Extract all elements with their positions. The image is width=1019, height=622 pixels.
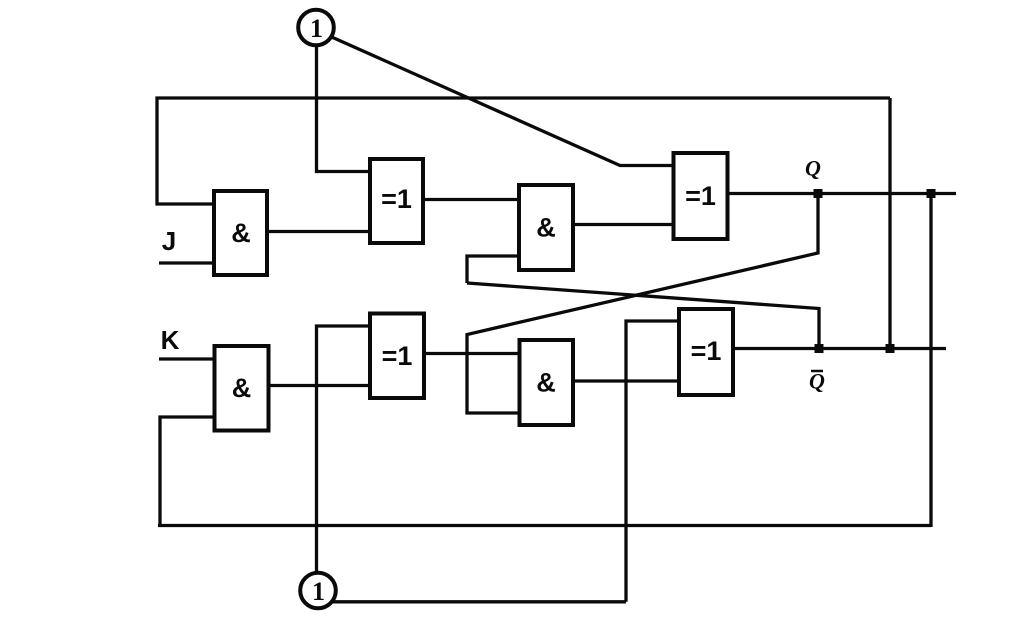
junction on Qbar line at x=890 xyxy=(886,344,895,353)
wire: Qbar output line xyxy=(733,347,946,350)
wire: XOR U8 top input hook from bottom constant-1 rail xyxy=(626,321,679,602)
svg-text:=1: =1 xyxy=(382,341,413,371)
svg-text:=1: =1 xyxy=(381,184,412,214)
svg-text:&: & xyxy=(536,213,556,243)
wire: right vertical from top rail down to Qbar line xyxy=(888,98,891,349)
XOR gate U4 (drives Q) xyxy=(674,153,728,239)
wire: K input lead xyxy=(159,357,216,360)
node: constant-1 source (bottom), circle xyxy=(300,573,336,609)
svg-text:=1: =1 xyxy=(685,181,716,211)
wire: U1 output to XOR U2 lower input xyxy=(267,230,371,233)
XOR gate U2 xyxy=(370,159,423,243)
svg-text:Q: Q xyxy=(805,156,821,181)
svg-text:1: 1 xyxy=(312,577,325,606)
wire: U2 output to AND U3 top input xyxy=(423,198,520,201)
XOR gate U6 xyxy=(370,314,424,399)
svg-text:1: 1 xyxy=(310,14,323,43)
junction on Q line at x=931 xyxy=(927,189,936,198)
AND gate U7 xyxy=(520,340,574,425)
wire: far right vertical from Q line down to bottom rail xyxy=(929,194,932,528)
wire: U5 lower-input hook down to bottom rail xyxy=(160,417,216,526)
wire: top constant-1 stem down to XOR U2 top input xyxy=(317,45,372,172)
wire: J input lead xyxy=(159,261,216,264)
svg-text:J: J xyxy=(162,226,176,256)
XOR gate U8 (drives Qbar) xyxy=(679,309,733,395)
wire: top feedback rail xyxy=(157,98,890,204)
svg-text:K: K xyxy=(161,325,180,355)
wire: U7 output to XOR U8 lower input xyxy=(573,379,679,382)
wire: bottom constant-1 output to XOR U8 hook xyxy=(333,600,626,603)
wire: U3 output to XOR U4 lower input xyxy=(573,223,674,226)
AND gate U1 (J) xyxy=(214,191,267,275)
svg-text:&: & xyxy=(232,373,252,403)
wire: diagonal from top constant-1 to XOR U4 top input xyxy=(331,37,675,166)
wire: XOR U6 top input from bottom constant-1 stem xyxy=(317,326,372,572)
svg-text:&: & xyxy=(536,368,556,398)
label Qbar xyxy=(809,369,825,394)
svg-text:&: & xyxy=(231,218,251,248)
AND gate U5 (K) xyxy=(215,346,269,431)
wire: bottom rail xyxy=(158,524,931,527)
junction on Q line at x=818 xyxy=(814,189,823,198)
AND gate U3 xyxy=(519,185,573,270)
junction on Qbar line at x=819 xyxy=(815,344,824,353)
node: constant-1 source (top), circle xyxy=(298,10,334,46)
wire: hook into AND U3 lower input (from cross diagonal B) xyxy=(467,256,520,283)
wire: Q feedback vertical then diagonal A to AND U7 lower input xyxy=(467,194,818,414)
wire: U6 output to AND U7 top input xyxy=(424,352,520,355)
wire: Q output line xyxy=(727,192,956,195)
svg-text:=1: =1 xyxy=(691,336,722,366)
wire: diagonal B (Qbar feedback) xyxy=(467,283,819,350)
wire: U5 output to XOR U6 lower input xyxy=(268,384,371,387)
